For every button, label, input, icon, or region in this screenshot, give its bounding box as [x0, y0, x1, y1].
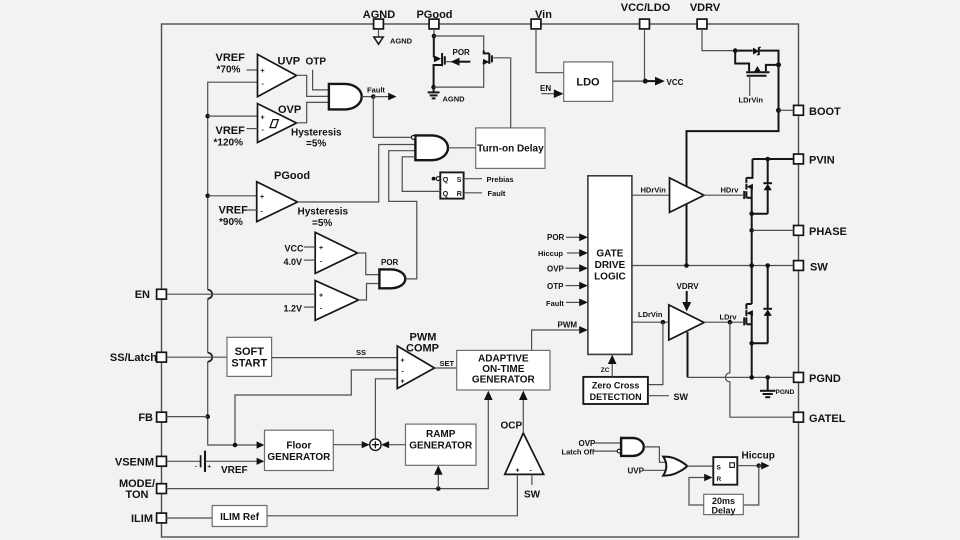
svg-text:S: S — [457, 177, 462, 184]
wire PWM from adaptive on-time generator into gate logic — [532, 330, 581, 350]
wire OR output to hiccup latch S — [687, 465, 713, 467]
diode D2 high-side body diode — [763, 159, 772, 214]
pin PGND (right) — [794, 373, 841, 386]
comparator VCC 4.0V — [315, 232, 357, 273]
svg-text:Hiccup: Hiccup — [538, 249, 563, 258]
node FB branch at floor generator line — [233, 443, 238, 448]
arrowhead ramp into summing node — [381, 441, 389, 448]
svg-text:LDrVin: LDrVin — [739, 96, 764, 105]
wire VCC stub — [304, 246, 315, 248]
node low-side source — [749, 341, 754, 346]
svg-text:AGND: AGND — [443, 95, 466, 104]
svg-text:Fault: Fault — [488, 189, 506, 198]
svg-text:S: S — [717, 464, 722, 471]
box RAMP GENERATOR — [406, 424, 477, 465]
op-amp high-side driver HDrv — [670, 178, 705, 213]
wire HDrVin output to high-side driver — [632, 194, 670, 196]
node PVIN / body diode cathode — [765, 157, 770, 162]
wire POR gate output routed to big AND gate — [389, 151, 417, 279]
node VDRV / boot diode anode — [733, 48, 738, 53]
comparator OCP (points up) — [505, 433, 544, 475]
svg-text:GENERATOR: GENERATOR — [267, 452, 331, 463]
svg-text:*90%: *90% — [219, 217, 243, 228]
svg-text:Latch Off: Latch Off — [562, 447, 595, 456]
node summing junction (circle plus) — [370, 439, 381, 450]
wire ILIM Ref output to OCP + input — [267, 474, 517, 515]
pin VSENM (left) — [115, 456, 167, 468]
node PGood net — [432, 34, 437, 39]
wire battery to Floor GENERATOR — [205, 460, 257, 462]
wire Fault arrow — [373, 96, 389, 98]
svg-text:Hysteresis: Hysteresis — [291, 128, 342, 139]
arrowhead into summing node — [362, 441, 370, 448]
node bus to OVP + input — [205, 114, 210, 119]
wire LDO output to VCC node — [613, 80, 646, 82]
svg-text:20ms: 20ms — [712, 496, 735, 506]
box ILIM Ref — [212, 506, 267, 527]
node Hiccup — [757, 463, 762, 468]
svg-text:SW: SW — [674, 392, 689, 402]
box SOFT START — [227, 337, 272, 376]
svg-text:FB: FB — [138, 412, 153, 424]
svg-text:1.2V: 1.2V — [284, 304, 303, 314]
svg-text:VREF: VREF — [216, 52, 246, 64]
svg-text:Prebias: Prebias — [487, 175, 514, 184]
pin EN (left) — [135, 289, 167, 301]
svg-text:+: + — [401, 357, 405, 364]
wire POR drive arrow into Q1 gate — [445, 61, 452, 63]
pin VCC/LDO (top) — [621, 2, 671, 29]
box Floor GENERATOR — [265, 430, 334, 470]
svg-text:PGood: PGood — [274, 170, 310, 182]
wire Latch Off stub into hiccup AND gate (inverted) — [593, 450, 618, 452]
bubble inverted fault input of 4-input AND — [411, 136, 415, 140]
wire OTP arrow into gate logic — [566, 285, 581, 287]
wire high-side driver return to SW line — [686, 204, 688, 265]
arrowhead VREF into floor generator — [257, 458, 265, 465]
svg-text:+: + — [516, 468, 520, 475]
wire LDrVin tap down to zero cross detection — [648, 322, 663, 384]
node PHASE — [749, 228, 754, 233]
wire 1.2V comparator output to POR gate — [359, 284, 380, 301]
svg-text:ADAPTIVE: ADAPTIVE — [478, 354, 529, 365]
wire OCP output to adaptive on-time generator — [522, 397, 524, 434]
wire VREF*120% stub to OVP - input — [247, 128, 258, 130]
svg-text:EN: EN — [135, 289, 150, 301]
svg-text:COMP: COMP — [406, 343, 439, 355]
or-gate hiccup trigger — [663, 457, 687, 476]
pin SS/Latch (left) — [110, 352, 166, 364]
pin PVIN (right) — [794, 154, 835, 166]
node Fault — [371, 94, 376, 99]
arrowhead into R input — [704, 474, 712, 482]
svg-text:VCC/LDO: VCC/LDO — [621, 2, 671, 14]
svg-text:*120%: *120% — [214, 138, 244, 149]
wire BOOT node to BOOT pin — [779, 109, 794, 111]
svg-text:VREF: VREF — [216, 125, 246, 137]
pin ILIM (left) — [131, 513, 166, 525]
wire UVP output to fault AND gate — [297, 75, 329, 96]
svg-text:PVIN: PVIN — [809, 155, 835, 167]
svg-text:LDrVin: LDrVin — [638, 310, 663, 319]
svg-text:VDRV: VDRV — [677, 282, 700, 291]
svg-text:GENERATOR: GENERATOR — [472, 375, 536, 386]
svg-text:+: + — [260, 194, 264, 201]
svg-text:OTP: OTP — [547, 282, 564, 291]
wire S to Prebias — [464, 178, 482, 180]
svg-text:HDrv: HDrv — [721, 185, 740, 194]
svg-text:UVP: UVP — [628, 467, 645, 476]
wire PGood node down to left FET drain — [433, 36, 435, 58]
wire Fault to big AND gate (inverted input) — [373, 97, 411, 138]
comparator PGood — [257, 182, 298, 222]
wire OVP stub into hiccup AND gate — [594, 442, 621, 444]
svg-text:ILIM Ref: ILIM Ref — [220, 512, 260, 523]
svg-text:VDRV: VDRV — [690, 2, 721, 14]
svg-text:+: + — [319, 245, 323, 252]
transistor Q2 (PGood pull-down right FET) — [483, 50, 492, 65]
svg-text:POR: POR — [547, 233, 565, 242]
ground PGND — [760, 377, 795, 397]
wire low-side source down to PGND line — [751, 343, 753, 377]
svg-text:TON: TON — [125, 489, 148, 501]
battery VREF reference — [195, 451, 212, 472]
wire VREF*70% stub to UVP + input — [247, 69, 258, 71]
arrowhead Fault — [388, 93, 396, 101]
comparator UVP — [258, 54, 297, 96]
svg-text:+: + — [401, 378, 405, 385]
wire bus to PGood + input — [208, 195, 257, 197]
wire LDrv gate tap down to GATEL pin (hop over PGND line) — [725, 322, 793, 417]
box Turn-on Delay — [476, 128, 545, 168]
wire ZC arrow into gate logic bottom — [611, 362, 613, 377]
wire boot node down to BOOT pin — [778, 65, 780, 110]
svg-text:PGood: PGood — [416, 9, 452, 21]
svg-text:+: + — [261, 115, 265, 122]
node boot FET right — [776, 62, 781, 67]
svg-text:POR: POR — [453, 48, 471, 57]
svg-text:START: START — [231, 358, 267, 370]
node LDrVin to zero-cross tap — [661, 320, 666, 325]
wire FB bus branch to PWM comparator inverting input — [235, 370, 397, 445]
svg-text:=5%: =5% — [306, 139, 326, 150]
svg-text:DRIVE: DRIVE — [595, 260, 626, 271]
svg-text:Turn-on Delay: Turn-on Delay — [477, 144, 544, 155]
wire 20ms delay output to latch R input — [689, 478, 706, 506]
wire UVP stub into OR gate — [643, 469, 668, 471]
wire OCP - input stub SW — [531, 474, 533, 485]
wire VDRV arrow into low-side driver — [686, 291, 688, 303]
svg-text:Hysteresis: Hysteresis — [298, 207, 349, 218]
svg-text:+: + — [208, 465, 212, 471]
svg-text:Floor: Floor — [286, 440, 311, 451]
flip-flop hiccup SR latch U2 — [713, 457, 737, 485]
svg-text:4.0V: 4.0V — [284, 257, 303, 267]
pin PHASE (right) — [794, 226, 847, 239]
svg-text:LOGIC: LOGIC — [594, 272, 626, 283]
wire PGood output to big AND gate — [298, 145, 416, 203]
svg-text:OVP: OVP — [278, 104, 301, 116]
arrowhead bus into Floor GENERATOR — [257, 441, 265, 448]
svg-text:ON-TIME: ON-TIME — [482, 364, 525, 375]
svg-text:OCP: OCP — [501, 421, 523, 432]
svg-text:UVP: UVP — [278, 56, 301, 68]
wire AGND pin to ground arrow — [378, 29, 380, 37]
svg-text:ILIM: ILIM — [131, 513, 153, 525]
wire fault gate output — [362, 96, 373, 98]
wire VCC/LDO pin down — [644, 29, 646, 81]
node ramp generator tap — [436, 486, 441, 491]
wire Hiccup arrow into gate logic — [567, 252, 581, 254]
transistor Q1 (PGood pull-down left FET) — [434, 53, 445, 87]
wire 4-input AND output to Turn-on Delay — [448, 147, 476, 149]
svg-text:PGND: PGND — [809, 373, 841, 385]
wire Q output to 4-input AND — [402, 157, 440, 192]
svg-text:VCC: VCC — [667, 78, 684, 87]
svg-text:VCC: VCC — [285, 244, 305, 254]
svg-text:SET: SET — [440, 359, 455, 368]
node VCC — [643, 79, 648, 84]
wire low-side source to diode anode — [752, 342, 768, 344]
svg-text:Q: Q — [443, 177, 449, 184]
svg-text:BOOT: BOOT — [809, 106, 841, 118]
node PGND at ground symbol — [765, 375, 770, 380]
svg-text:PHASE: PHASE — [809, 226, 847, 238]
svg-text:VREF: VREF — [219, 205, 249, 217]
wire Hiccup node down to 20ms delay — [743, 466, 759, 505]
op-amp low-side driver LDrv — [669, 305, 704, 340]
wire hiccup latch output — [737, 465, 759, 467]
svg-text:EN: EN — [540, 84, 551, 93]
wire FB sense bus (vertical x=207.7 with hops over EN and SS lines) — [208, 82, 261, 445]
box GATE DRIVE LOGIC — [588, 176, 632, 355]
transistor Q4 high-side FET — [703, 159, 753, 214]
box ADAPTIVE ON-TIME GENERATOR — [457, 350, 550, 390]
svg-text:AGND: AGND — [363, 9, 395, 21]
comparator PWM COMP — [397, 346, 434, 389]
wire R to Fault — [464, 192, 482, 194]
wire SOFT START output to PWM comparator — [272, 357, 398, 359]
svg-text:DETECTION: DETECTION — [590, 392, 642, 402]
wire Fault arrow into gate logic — [566, 301, 581, 303]
wire ILIM pin to ILIM Ref — [166, 517, 212, 519]
wire VREF*90% stub to PGood - input — [247, 209, 257, 211]
ground AGND (PGood FETs) — [428, 87, 465, 103]
node PGND at FET leg — [749, 375, 754, 380]
wire EN arrow into LDO — [541, 93, 555, 95]
and-gate POR (2-input) — [379, 269, 405, 288]
wire source node down to PHASE — [751, 214, 753, 231]
arrowhead mode line into adaptive generator — [484, 391, 493, 400]
svg-text:Hiccup: Hiccup — [742, 450, 775, 461]
svg-text:HDrVin: HDrVin — [641, 185, 667, 194]
wire MODE/TON line to adaptive on-time generator — [166, 397, 488, 489]
pin BOOT (right) — [794, 105, 841, 118]
wire 4.0V comparator output to POR gate — [358, 253, 380, 275]
wire boot diode branch — [735, 51, 778, 63]
wire hiccup AND output to OR gate — [644, 447, 666, 462]
wire summing node to PWM comparator bottom input — [375, 379, 397, 439]
pin GATEL (right) — [794, 412, 846, 425]
arrowhead into ramp generator — [434, 465, 443, 474]
pin Vin (top) — [531, 9, 552, 29]
pin SW (right) — [794, 261, 829, 274]
flip-flop prebias SR latch U1 — [440, 172, 463, 198]
wire PWM comparator output SET — [435, 367, 457, 369]
wire PGood pin down — [433, 29, 435, 36]
svg-text:SS: SS — [356, 348, 366, 357]
arrowhead OCP into adaptive generator — [519, 391, 528, 400]
svg-text:Q: Q — [443, 191, 449, 198]
ground AGND (open triangle ground arrow) — [374, 37, 413, 46]
node Qbar stub end — [432, 177, 436, 181]
wire Q2 gate to Turn-on Delay top — [492, 58, 511, 128]
node SW at FET leg — [749, 263, 754, 268]
wire Hiccup arrow — [759, 465, 763, 467]
node SW at driver return — [684, 263, 689, 268]
wire Floor GENERATOR output to summing node — [333, 444, 362, 446]
svg-text:GENERATOR: GENERATOR — [409, 441, 473, 452]
wire POR arrow into gate logic — [566, 236, 581, 238]
wire PGood node to right FET drain — [434, 36, 484, 50]
wire RAMP GENERATOR output to summing node — [389, 444, 406, 446]
svg-text:Fault: Fault — [367, 86, 385, 95]
diode D3 low-side body diode — [763, 266, 772, 344]
diode D1 boot schottky — [753, 47, 761, 55]
node high-side source — [749, 212, 754, 217]
wire FB pin to bus — [166, 416, 207, 418]
wire source rail to right FET — [434, 64, 484, 87]
wire VSENM pin to battery — [166, 460, 200, 462]
box Zero Cross DETECTION — [583, 377, 648, 404]
svg-text:LDO: LDO — [576, 77, 600, 89]
node PGood FET source / AGND — [431, 85, 436, 90]
svg-text:+: + — [261, 68, 265, 75]
wire bus to OVP + input — [208, 115, 258, 117]
svg-text:VREF: VREF — [221, 465, 248, 476]
comparator 1.2V — [315, 281, 358, 321]
wire PHASE node to PHASE pin — [752, 229, 794, 231]
svg-text:Fault: Fault — [546, 299, 564, 308]
wire PGND line to PGND pin — [688, 376, 794, 378]
bubble Qbar inverted output — [436, 177, 440, 181]
pin FB (left) — [138, 412, 166, 424]
comparator OVP (with hysteresis glyph) — [258, 104, 297, 143]
svg-text:Delay: Delay — [711, 505, 735, 515]
svg-text:PWM: PWM — [558, 320, 578, 329]
transistor Q3 boot switch (horizontal FET) — [735, 51, 778, 96]
and-gate hiccup qualifier — [621, 438, 644, 456]
box 20ms Delay — [704, 494, 744, 515]
wire PVIN pin to high-side FET drain — [753, 158, 794, 160]
svg-text:-: - — [195, 465, 197, 471]
wire Vin pin to LDO — [536, 29, 564, 73]
svg-text:OTP: OTP — [306, 57, 327, 68]
pin AGND (top) — [363, 9, 395, 29]
svg-text:GATE: GATE — [596, 249, 623, 260]
and-gate power good qualifier (4-input) — [415, 135, 448, 160]
box LDO — [564, 62, 613, 102]
svg-text:R: R — [717, 476, 722, 483]
wire SW sense line from gate logic to SW pin — [632, 265, 794, 267]
svg-text:Zero Cross: Zero Cross — [592, 381, 640, 391]
svg-text:SW: SW — [524, 490, 541, 501]
svg-text:POR: POR — [381, 258, 399, 267]
wire high-side source to diode anode — [752, 213, 768, 215]
wire VDRV pin to boot switch node — [702, 29, 733, 51]
svg-text:Vin: Vin — [535, 9, 552, 21]
chip boundary — [162, 24, 799, 537]
wire 4.0V stub — [304, 259, 315, 261]
svg-text:R: R — [457, 191, 462, 198]
pin PGood (top) — [416, 9, 452, 29]
node LDrv gate tap — [728, 320, 733, 325]
wire LDrVin output to low-side driver — [632, 321, 669, 323]
svg-text:GATEL: GATEL — [809, 413, 846, 425]
wire PHASE node down to SW line — [751, 230, 753, 265]
node bus to FB pin — [205, 414, 210, 419]
svg-text:PGND: PGND — [776, 389, 795, 396]
transistor Q5 low-side FET — [704, 266, 753, 344]
bubble latch off inverted input — [617, 449, 621, 453]
svg-text:*70%: *70% — [217, 65, 241, 76]
svg-text:LDrv: LDrv — [720, 312, 738, 321]
wire OVP output to fault AND gate — [297, 102, 329, 122]
node bus to PGood + input — [205, 194, 210, 199]
wire Qbar stub with bubble — [432, 178, 436, 180]
node BOOT — [776, 108, 781, 113]
wire VCC arrow — [645, 80, 656, 82]
svg-text:AGND: AGND — [390, 37, 413, 46]
pin MODE/TON (left) — [119, 478, 166, 501]
wire bootstrap rail to high-side driver — [687, 110, 779, 186]
wire tap up to RAMP GENERATOR — [437, 471, 439, 489]
svg-text:OVP: OVP — [547, 265, 565, 274]
wire OVP arrow into gate logic — [566, 267, 581, 269]
svg-text:SOFT: SOFT — [235, 346, 265, 358]
wire OTP to fault AND gate — [313, 70, 329, 90]
svg-text:+: + — [319, 293, 323, 300]
pin VDRV (top) — [690, 2, 721, 29]
svg-text:=5%: =5% — [312, 218, 332, 229]
svg-text:SS/Latch: SS/Latch — [110, 352, 157, 364]
svg-text:VSENM: VSENM — [115, 456, 154, 468]
and-gate fault combiner (3-input) — [329, 84, 362, 110]
svg-text:SW: SW — [810, 262, 828, 274]
wire SS/Latch pin to SOFT START — [166, 356, 227, 358]
svg-text:RAMP: RAMP — [426, 429, 456, 440]
wire SW stub of zero cross detection — [648, 395, 669, 397]
wire low-side driver return to PGND line — [687, 332, 689, 378]
node SW at body diode leg — [765, 263, 770, 268]
wire EN pin to 1.2V comparator + input — [166, 293, 315, 295]
svg-text:ZC: ZC — [601, 367, 610, 374]
wire 1.2V stub — [304, 306, 315, 308]
